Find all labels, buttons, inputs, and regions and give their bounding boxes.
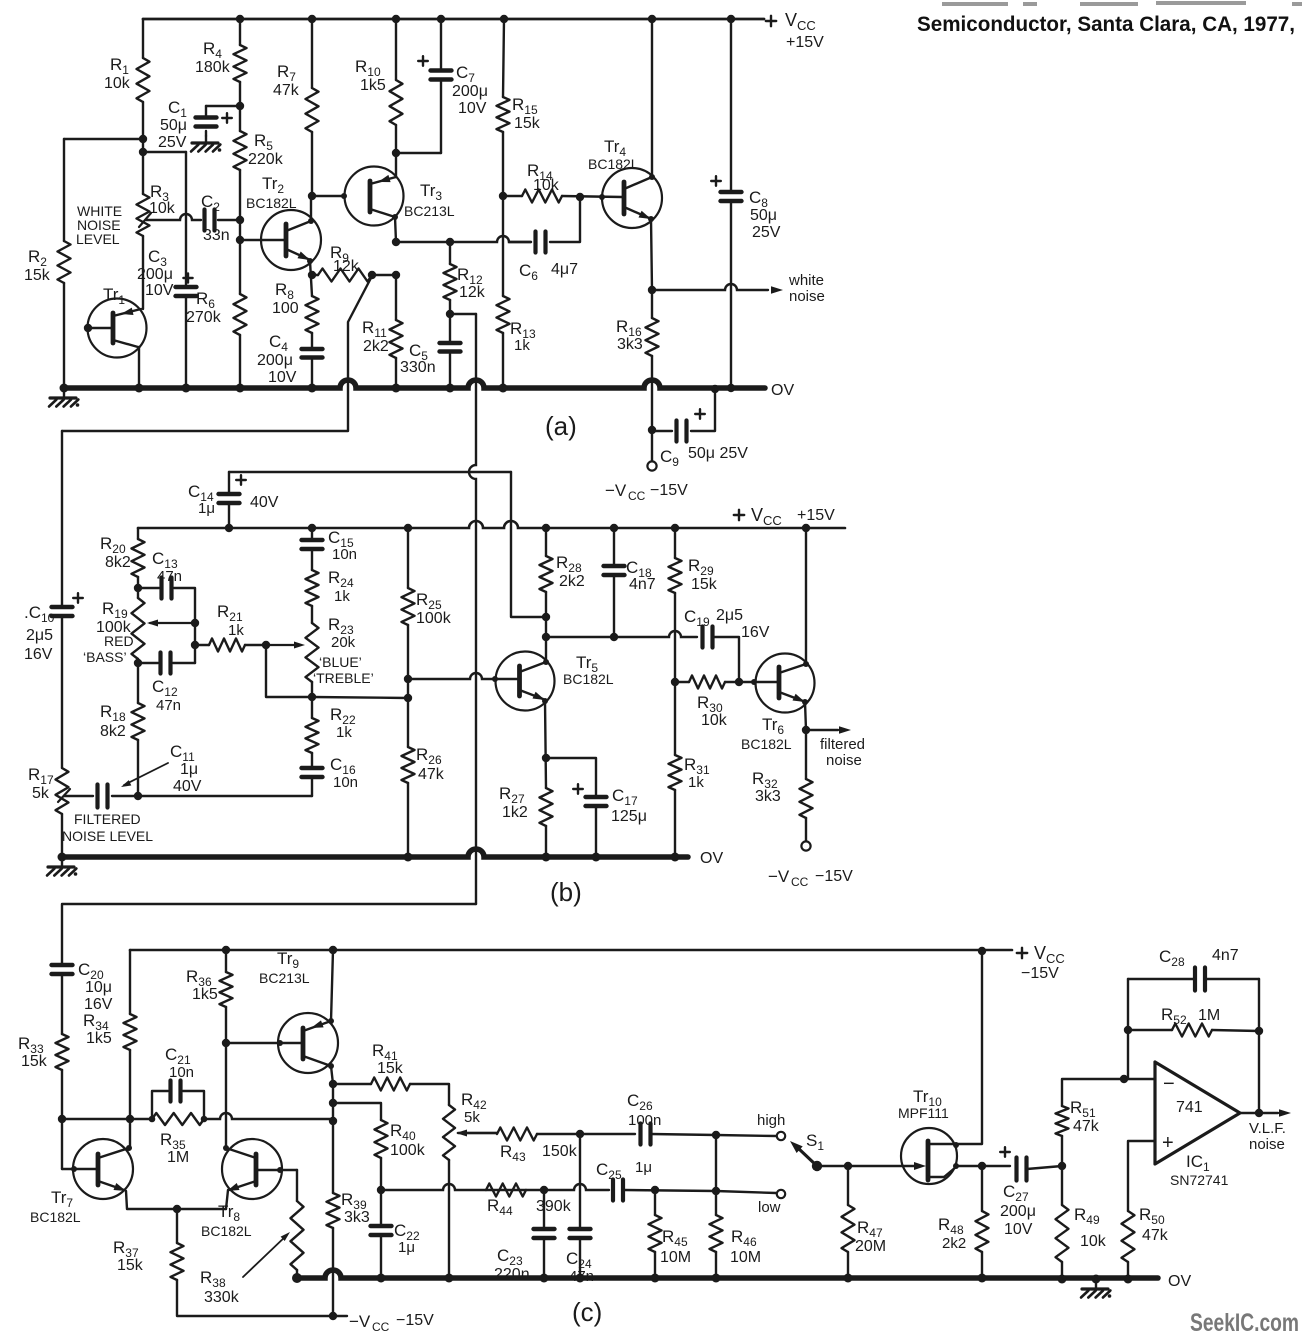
wire +Vcc rail (c) [130, 949, 1012, 952]
svg-text:BC182L: BC182L [588, 156, 639, 172]
ground symbol left (a) [63, 388, 65, 397]
node dot Tr2 emitter circle-edge [307, 258, 313, 264]
resistor R20 [132, 539, 145, 577]
node dot R9 left junction [308, 271, 316, 279]
svg-text:−V: −V [349, 1312, 371, 1331]
node dot R41 row [329, 1080, 337, 1088]
svg-text:NOISE LEVEL: NOISE LEVEL [62, 828, 153, 844]
svg-text:12k: 12k [333, 258, 360, 275]
node dot R35 row right [329, 1117, 337, 1125]
wire Tr2 emitter down [310, 261, 312, 296]
wire R23 bottom [311, 682, 313, 697]
svg-text:high: high [757, 1112, 785, 1129]
wire Tr4 emitter down [651, 219, 652, 290]
wire R5 to R6 [239, 170, 241, 294]
transistor Tr6 [756, 654, 815, 713]
svg-text:15k: 15k [691, 576, 718, 593]
capacitor C7 [431, 68, 452, 72]
R19 wiper arrow [150, 622, 195, 624]
potentiometer R23 [306, 623, 319, 682]
svg-text:4n7: 4n7 [629, 576, 656, 593]
resistor R10 [390, 80, 403, 125]
wire R1 bottom to R3 [142, 102, 144, 194]
R23 wiper arrow [266, 644, 299, 646]
ground symbol (c) [1095, 1279, 1097, 1288]
resistor R25 [402, 588, 415, 625]
wire C15 top [311, 528, 313, 540]
node dot Tr2 collector circle-edge [308, 218, 314, 224]
wire R41 to R42 [410, 1084, 449, 1105]
wire C12 left [138, 662, 158, 664]
wire R38 bottom [296, 1270, 298, 1278]
svg-text:‘TREBLE’: ‘TREBLE’ [313, 670, 374, 686]
wire feedback right column [1258, 979, 1260, 1113]
resistor R6 [234, 294, 247, 335]
wire R15 to R14 [502, 132, 504, 196]
wire Tr1 emitter to 0V [138, 347, 140, 388]
resistor R41 [371, 1078, 410, 1091]
node dots on 0V rail (b) [58, 853, 67, 862]
svg-text:47k: 47k [273, 82, 300, 99]
svg-text:25V: 25V [752, 224, 781, 241]
svg-text:−15V: −15V [396, 1312, 434, 1329]
+Vcc +15V label (b) [734, 514, 744, 516]
node dot rail start R38 [292, 1273, 302, 1283]
svg-text:330k: 330k [204, 1289, 240, 1306]
svg-text:2k2: 2k2 [363, 338, 389, 355]
wire Tr5 emitter to R27 [545, 701, 546, 788]
svg-text:1k5: 1k5 [360, 77, 386, 94]
wire filtered noise output [806, 729, 838, 731]
svg-text:Semiconductor, Santa Clara, CA: Semiconductor, Santa Clara, CA, 1977, [917, 13, 1295, 36]
node dot R19 wiper tap [191, 619, 199, 627]
node dot Tr5 emitter circle-edge [542, 698, 548, 704]
transistor Tr2 [261, 210, 321, 270]
wire R30 leads [675, 681, 689, 683]
node dot Tr5 collector circle-edge [543, 659, 549, 665]
svg-text:(b): (b) [550, 877, 582, 907]
node dot C21 left [149, 1116, 156, 1123]
R42 wiper arrow [460, 1132, 497, 1134]
wire R26 bottom [407, 783, 409, 857]
resistor R33 [56, 1034, 69, 1070]
wire to low terminal [716, 1191, 776, 1193]
switch S1 [798, 1148, 817, 1166]
wire C18 top [613, 528, 615, 566]
capacitor C15 [302, 538, 323, 542]
C11 label arrow [124, 763, 168, 785]
svg-text:‘BLUE’: ‘BLUE’ [319, 654, 362, 670]
0V ground rail (c) [297, 1270, 1158, 1278]
capacitor C16 [302, 766, 323, 770]
node dot C2 junction [236, 216, 244, 224]
svg-text:−V: −V [768, 867, 790, 886]
node dot -Vcc row [329, 1312, 337, 1320]
node dot R14 left [499, 192, 507, 200]
svg-text:.C: .C [24, 603, 41, 622]
0V ground rail (b) [62, 849, 688, 857]
wire C8 bottom [730, 201, 732, 388]
svg-text:390k: 390k [536, 1198, 572, 1215]
svg-text:−15V: −15V [650, 482, 688, 499]
wire R25 bottom [407, 625, 409, 679]
wire C12 right [173, 662, 195, 664]
wire C14 bottom [228, 503, 230, 528]
wire R13 column [502, 196, 504, 296]
resistor R12 [444, 264, 457, 300]
wire R11 bottom [395, 358, 397, 388]
svg-text:LEVEL: LEVEL [76, 231, 120, 247]
wire C10 to R17 [61, 616, 63, 768]
svg-text:(a): (a) [545, 411, 577, 441]
capacitor C12 [158, 653, 162, 674]
wire R7 top [311, 19, 313, 88]
svg-text:180k: 180k [195, 59, 231, 76]
svg-text:10V: 10V [145, 282, 174, 299]
resistor R16 [646, 318, 659, 356]
svg-text:2μ5: 2μ5 [716, 607, 743, 624]
resistor R2 [58, 241, 71, 283]
node dot Tr10 drain circle-edge [953, 1142, 959, 1148]
wire R44 row [381, 1184, 609, 1190]
node dot C14 bottom [225, 524, 233, 532]
wire R28 top [545, 528, 547, 556]
wire R12 bottom lead [449, 300, 451, 343]
node dot C1 junction [236, 102, 244, 110]
svg-text:47k: 47k [418, 766, 445, 783]
capacitor C9 [674, 421, 678, 442]
node junction dots on +Vcc rail (a) [236, 15, 244, 23]
svg-text:noise: noise [1249, 1136, 1285, 1153]
wire Tr3 collector to C6 row [396, 236, 531, 242]
svg-text:4μ7: 4μ7 [551, 261, 578, 278]
node dot Tr3 collector circle-edge [392, 214, 398, 220]
node dots on 0V rail (c) [377, 1274, 386, 1283]
resistor R24 [306, 570, 319, 606]
wire R4 to R5 [239, 82, 241, 131]
resistor R18 [132, 703, 145, 740]
node dot R3 top junction [139, 148, 147, 156]
resistor R44 [486, 1184, 526, 1197]
svg-text:47n: 47n [157, 568, 182, 585]
wire Tr4 collector to +Vcc [651, 19, 653, 177]
wire C3 column lower [185, 296, 187, 388]
wire C1 link [206, 105, 240, 107]
node dot R52 left [1124, 1026, 1132, 1034]
wire C23 column [543, 1190, 545, 1229]
node dots on 0V rail (a) [60, 384, 69, 393]
svg-text:2k2: 2k2 [942, 1235, 966, 1252]
svg-text:1k5: 1k5 [86, 1030, 112, 1047]
node dot Tr7 collector circle-edge [126, 1145, 132, 1151]
wire Tr3 collector down [395, 217, 396, 242]
svg-text:5k: 5k [32, 785, 50, 802]
wire R9 node down to section b [62, 276, 372, 431]
wire C7 bottom [440, 80, 442, 153]
resistor R5 [234, 131, 247, 170]
wire R20 top [137, 528, 139, 539]
svg-text:BC213L: BC213L [404, 203, 455, 219]
wire C24 column [579, 1134, 581, 1229]
svg-text:BC182L: BC182L [563, 671, 614, 687]
node dot R21 tap [191, 641, 199, 649]
node dot filtered-noise junction [802, 726, 810, 734]
capacitor C10 [52, 605, 73, 609]
wire C27 right [1027, 1166, 1062, 1169]
svg-text:125μ: 125μ [611, 808, 647, 825]
node dot C7 link junction [392, 149, 400, 157]
svg-text:1μ: 1μ [198, 500, 215, 517]
node dot R37 top [173, 1205, 181, 1213]
wire Tr5 base [408, 673, 517, 679]
wire R8 to C4 [311, 333, 313, 349]
resistor R27 [540, 788, 553, 826]
wire R21 left [195, 644, 209, 646]
resistor R29 [669, 558, 682, 593]
wire Tr8 emitter down [226, 1190, 228, 1209]
svg-text:47k: 47k [1142, 1227, 1169, 1244]
svg-text:noise: noise [789, 288, 825, 305]
capacitor C25 [611, 1180, 615, 1201]
svg-text:100n: 100n [628, 1112, 661, 1129]
node dot R51/R49 node [1058, 1162, 1066, 1170]
wire non-inverting input [1128, 1141, 1155, 1211]
wire R2 top link [64, 138, 143, 140]
svg-text:10n: 10n [332, 546, 357, 563]
node dot Tr6 emitter circle-edge [802, 699, 808, 705]
capacitor C26 [638, 1124, 642, 1145]
node dot C17 link [542, 754, 550, 762]
svg-text:47k: 47k [1073, 1118, 1100, 1135]
node dot C18 row node [542, 633, 550, 641]
node dot R40/C22 node [377, 1186, 385, 1194]
svg-text:1k: 1k [688, 774, 704, 791]
transistor Tr1 [88, 299, 147, 358]
wire C9 left lead [652, 430, 672, 432]
svg-text:33n: 33n [203, 227, 230, 244]
wire +Vcc rail (b) [138, 521, 845, 528]
wire R45 column [654, 1190, 656, 1215]
wire R2 column [63, 139, 65, 241]
resistor R50 [1122, 1211, 1135, 1262]
transistor Tr7 [73, 1139, 133, 1199]
wire op-amp output [1240, 1112, 1278, 1114]
wire R36 column down to Tr8 collector [225, 1043, 227, 1148]
wire Tr9 collector column down [332, 1084, 334, 1193]
wire C4 bottom [311, 360, 313, 388]
transistor Tr3 [345, 167, 404, 226]
wire R17 bottom [61, 814, 63, 857]
svg-text:16V: 16V [741, 624, 770, 641]
node dot R22 top node [308, 693, 316, 701]
wire C7 top [440, 19, 442, 70]
svg-text:V.L.F.: V.L.F. [1249, 1120, 1286, 1137]
wire R47 column [847, 1166, 849, 1205]
resistor R48 [976, 1211, 989, 1252]
wire C26 row left [580, 1133, 635, 1135]
node dot R18 bottom [134, 792, 142, 800]
svg-text:16V: 16V [24, 646, 53, 663]
capacitor C8 [721, 190, 742, 194]
node dot low tap [712, 1187, 720, 1195]
wire R3 wiper to C2 [146, 214, 201, 220]
node dot R12 top [446, 238, 454, 246]
wire C17 link [546, 758, 596, 797]
wire R6 bottom [239, 335, 241, 388]
capacitor C18 [604, 564, 625, 568]
resistor R35 [152, 1113, 204, 1125]
capacitor C5 [440, 341, 461, 345]
wire C11 row to C16 [138, 795, 312, 797]
wire Tr9 base [226, 1042, 301, 1044]
wire C16 bottom to C11 row [311, 777, 313, 796]
svg-text:filtered: filtered [820, 736, 865, 753]
resistor R34 [124, 1014, 137, 1050]
svg-text:4n7: 4n7 [1212, 947, 1239, 964]
wire C2 to R5 column [218, 219, 240, 221]
capacitor C13 [159, 578, 163, 599]
wire C10 column top [61, 431, 63, 607]
node dots on +Vcc rail (c) [222, 946, 230, 954]
wire R4 top [239, 19, 241, 45]
node dot inverting input node [1120, 1075, 1128, 1083]
resistor R32 [800, 779, 813, 818]
svg-text:noise: noise [826, 752, 862, 769]
wire R32 bottom [805, 818, 807, 841]
svg-text:‘BASS’: ‘BASS’ [83, 649, 127, 665]
svg-text:low: low [758, 1199, 781, 1216]
op-amp IC1 741 [1155, 1062, 1240, 1164]
0V ground rail (a) [64, 380, 765, 388]
wire R39 bottom through 0V rail [332, 1228, 334, 1316]
wire C5 bottom [449, 354, 451, 388]
wire R27 bottom [545, 826, 547, 857]
cut-off text fragments top edge [942, 1, 1302, 6]
capacitor C14 [219, 492, 240, 496]
svg-text:270k: 270k [186, 309, 222, 326]
svg-text:200μ: 200μ [452, 83, 488, 100]
wire C17 bottom [595, 806, 597, 857]
potentiometer R42 [443, 1105, 455, 1160]
svg-text:OV: OV [771, 382, 794, 399]
wire C22 top [380, 1190, 382, 1226]
resistor R9 [318, 269, 372, 282]
node dots on +Vcc rail (b) [308, 524, 316, 532]
svg-text:100: 100 [272, 300, 299, 317]
svg-text:10k: 10k [104, 75, 131, 92]
svg-text:15k: 15k [21, 1053, 48, 1070]
svg-text:BC182L: BC182L [30, 1209, 81, 1225]
svg-text:8k2: 8k2 [105, 554, 131, 571]
svg-text:50μ: 50μ [750, 207, 777, 224]
wire R10 bottom to Tr3 emitter [395, 125, 397, 177]
wire R23 wiper node down [266, 645, 312, 697]
wire R12 node to vertical feed B [450, 313, 476, 315]
resistor R38 [291, 1201, 304, 1270]
svg-text:1k: 1k [514, 337, 530, 354]
svg-text:−V: −V [605, 481, 627, 500]
node dot C12 left [134, 659, 142, 667]
wire C11 to R18 node [112, 795, 138, 797]
svg-text:10V: 10V [458, 100, 487, 117]
svg-text:10k: 10k [149, 200, 176, 217]
node dot Tr9 base node [222, 1039, 230, 1047]
svg-text:10n: 10n [169, 1064, 194, 1081]
wire C3 column upper [185, 152, 187, 287]
wire C8 top [730, 19, 732, 192]
wire Tr6 collector to +Vcc [805, 528, 807, 664]
svg-text:(c): (c) [572, 1297, 602, 1327]
wire R52 leads [1128, 1029, 1172, 1031]
node dot Tr2 collector/R7 [308, 192, 316, 200]
capacitor C4 [302, 347, 323, 351]
node dot R52 right [1255, 1027, 1263, 1035]
node dot R35 row left [58, 1115, 66, 1123]
wire R14 leads [503, 195, 522, 197]
node dot C23 top [540, 1186, 548, 1194]
svg-text:150k: 150k [542, 1143, 578, 1160]
svg-text:100k: 100k [416, 610, 452, 627]
resistor R8 [306, 296, 319, 333]
wire R36 top [225, 950, 227, 972]
capacitor C24 [570, 1227, 591, 1231]
wire white noise output [652, 284, 768, 290]
svg-text:40V: 40V [173, 778, 202, 795]
wire R42 bottom to 0V [448, 1160, 450, 1278]
wire R25-R26 link [407, 679, 409, 747]
wire Tr2-Tr3 base link [312, 195, 345, 197]
wire R7 bottom [311, 132, 313, 196]
svg-text:100k: 100k [390, 1142, 426, 1159]
wire C21 loop [152, 1091, 168, 1119]
svg-text:2μ5: 2μ5 [26, 627, 53, 644]
node dot R21-R22 row node [404, 694, 412, 702]
resistor R45 [649, 1215, 662, 1252]
resistor R15 [497, 97, 510, 132]
resistor R36 [220, 972, 233, 1007]
wire R48 column [981, 1166, 983, 1211]
svg-text:220k: 220k [248, 151, 284, 168]
svg-text:330n: 330n [400, 359, 436, 376]
wire to high terminal [716, 1135, 776, 1136]
wire R16 top [651, 290, 653, 318]
terminal high [777, 1132, 785, 1140]
wire R34 top [129, 950, 131, 1014]
node dot Tr10 source circle-edge [953, 1163, 959, 1169]
wire R24-R23 link [311, 606, 313, 623]
wire R49 column [1061, 1166, 1063, 1205]
wire R41 row [333, 1083, 371, 1085]
resistor R11 [390, 320, 403, 358]
svg-text:−15V: −15V [815, 868, 853, 885]
svg-text:15k: 15k [117, 1257, 144, 1274]
svg-text:200μ: 200μ [257, 352, 293, 369]
wire R46 column [715, 1135, 717, 1215]
svg-text:40V: 40V [250, 494, 279, 511]
resistor R7 [306, 88, 319, 132]
svg-text:1μ: 1μ [635, 1159, 652, 1176]
wire -Vcc row stub [333, 1315, 347, 1317]
wire R37 top lead [176, 1209, 178, 1243]
transistor Tr10 JFET [901, 1128, 957, 1184]
wire R21 row to R26 node [312, 697, 408, 698]
wire R40 row [333, 1103, 381, 1120]
svg-text:CC: CC [628, 489, 646, 503]
node dot Tr3 collector node [392, 238, 400, 246]
wire R31 column [674, 682, 676, 755]
svg-text:200μ: 200μ [1000, 1203, 1036, 1220]
capacitor C17 [586, 795, 607, 799]
